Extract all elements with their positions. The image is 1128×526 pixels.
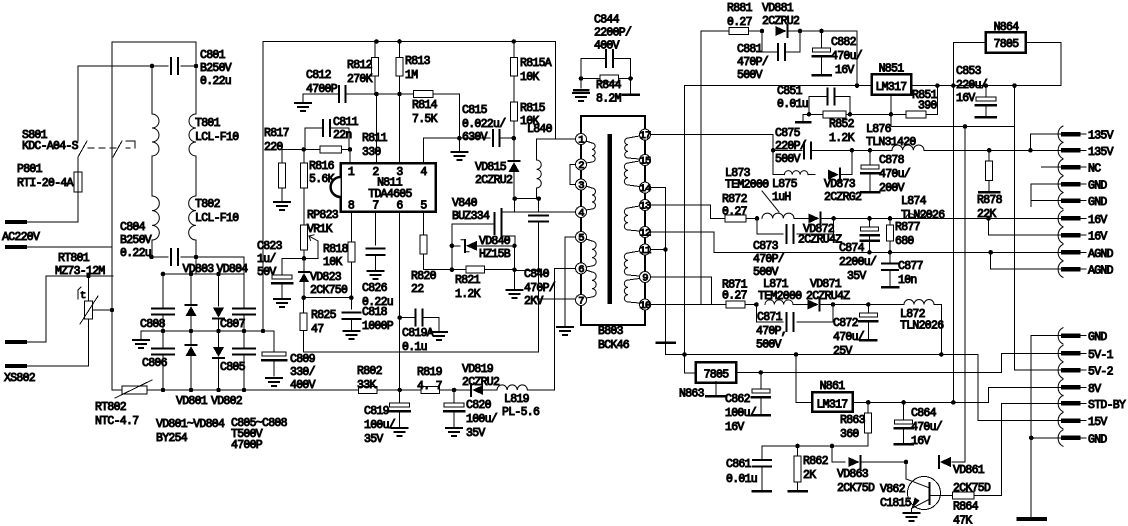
ground (140, 331, 142, 340)
svg-text:0.022u/: 0.022u/ (462, 118, 506, 131)
svg-text:4: 4 (420, 166, 427, 179)
svg-text:V862: V862 (880, 483, 906, 496)
svg-text:10: 10 (639, 300, 651, 312)
capacitor C840 (538, 199, 540, 212)
capacitor C819A (400, 317, 414, 319)
svg-text:6: 6 (396, 200, 403, 213)
svg-text:STD-BY: STD-BY (1088, 399, 1126, 412)
svg-text:R815A: R815A (520, 57, 552, 70)
svg-text:3: 3 (578, 180, 584, 192)
svg-text:C809: C809 (290, 353, 316, 366)
svg-text:10n: 10n (898, 274, 917, 287)
ground (274, 201, 290, 203)
svg-text:22: 22 (411, 283, 424, 296)
svg-text:11: 11 (639, 245, 651, 257)
pin 2 (576, 159, 587, 170)
resistor R881 (729, 28, 748, 35)
svg-text:L876: L876 (866, 123, 892, 136)
svg-text:C808: C808 (140, 318, 166, 331)
svg-text:T801: T801 (195, 117, 221, 130)
svg-text:17: 17 (639, 130, 651, 142)
capacitor C826 (375, 212, 377, 245)
svg-text:VD815: VD815 (475, 161, 507, 174)
wire 15V (978, 355, 1063, 421)
resistor R878 (988, 150, 990, 161)
transistor V862 (908, 477, 941, 510)
svg-text:BY254: BY254 (156, 432, 188, 445)
svg-text:RTI-20-4A: RTI-20-4A (17, 177, 74, 190)
svg-text:4. 7: 4. 7 (417, 380, 442, 393)
svg-text:7805: 7805 (994, 38, 1020, 51)
wire gnd rail (1031, 336, 1063, 519)
pin 7 (576, 295, 587, 306)
svg-text:AGND: AGND (1088, 265, 1114, 278)
svg-text:470P/: 470P/ (753, 253, 785, 266)
svg-text:C881: C881 (737, 43, 763, 56)
svg-text:16V: 16V (835, 64, 854, 77)
switch pole 2 (113, 141, 122, 157)
svg-text:GND: GND (1088, 433, 1107, 446)
wire N861 out (853, 401, 989, 403)
svg-text:1000P: 1000P (362, 320, 394, 333)
svg-text:VD801~VD804: VD801~VD804 (156, 418, 225, 431)
svg-text:5: 5 (420, 200, 427, 213)
capacitor C820 (453, 390, 455, 403)
diode VD801 (190, 331, 192, 345)
resistor R812 (374, 42, 376, 58)
chassis ground (1019, 517, 1045, 521)
svg-text:100u/: 100u/ (466, 413, 498, 426)
resistor R815A (513, 42, 515, 58)
capacitor C808 (162, 274, 164, 308)
pin 9 (640, 272, 651, 283)
svg-text:R814: R814 (412, 99, 438, 112)
diode VD804 (218, 274, 220, 306)
wire to LM317 (856, 31, 858, 86)
svg-text:C875: C875 (775, 127, 801, 140)
svg-text:NC: NC (1088, 163, 1101, 176)
svg-text:R816: R816 (309, 160, 335, 173)
winding 5-6 (586, 239, 592, 241)
svg-text:4700P: 4700P (231, 439, 263, 452)
pin 17 (640, 129, 651, 140)
svg-text:100u/: 100u/ (725, 407, 757, 420)
ground (458, 138, 460, 152)
regulator N863 7805 (685, 372, 696, 374)
capacitor C871 snubber (756, 305, 783, 323)
diode VD815 (509, 160, 520, 162)
pad GND (1058, 328, 1063, 344)
svg-text:N861: N861 (820, 380, 846, 393)
svg-text:R878: R878 (977, 194, 1003, 207)
pad 5V-1 (1058, 345, 1063, 361)
pin 11 (640, 244, 651, 255)
fuse P801 (74, 172, 82, 192)
zener VD840 (452, 245, 460, 247)
wire pin6 (399, 212, 401, 318)
terminal XS802 bar2 (7, 364, 25, 368)
node (302, 256, 307, 261)
wire standby (701, 31, 729, 305)
svg-text:1M: 1M (405, 69, 418, 82)
svg-text:12: 12 (639, 228, 651, 240)
svg-text:R813: R813 (405, 55, 431, 68)
svg-text:470P,: 470P, (756, 325, 787, 338)
pin 15 (640, 155, 651, 166)
wire (25, 319, 89, 366)
svg-text:C871: C871 (757, 311, 783, 324)
wire degauss (46, 275, 113, 277)
svg-text:VD873: VD873 (824, 178, 856, 191)
capacitor C819 (399, 390, 401, 403)
svg-text:270K: 270K (347, 73, 373, 86)
svg-text:1.2K: 1.2K (829, 132, 855, 145)
wire AGND rail (714, 251, 1063, 253)
resistor R811 (320, 146, 342, 153)
svg-text:C840: C840 (524, 268, 550, 281)
svg-text:N863: N863 (679, 388, 705, 401)
svg-text:C872: C872 (833, 317, 859, 330)
svg-text:0.22u: 0.22u (362, 296, 393, 309)
svg-text:BUZ334: BUZ334 (452, 210, 490, 223)
svg-text:C882: C882 (831, 36, 857, 49)
svg-text:2CK75D: 2CK75D (953, 482, 991, 495)
wire 135V (773, 149, 802, 151)
svg-text:470P/: 470P/ (524, 282, 556, 295)
wire (78, 65, 168, 67)
node B+ (261, 329, 266, 334)
svg-text:16V: 16V (956, 92, 975, 105)
svg-text:35V: 35V (847, 270, 866, 283)
svg-text:LM317: LM317 (875, 81, 906, 94)
capacitor C806 (162, 331, 164, 348)
svg-text:220: 220 (264, 141, 283, 154)
terminal AC bar2 (7, 245, 25, 249)
svg-text:KDC-A04-S: KDC-A04-S (22, 140, 79, 153)
wire (304, 297, 352, 299)
svg-text:10K: 10K (323, 256, 342, 269)
wire B+ to pin1 (555, 42, 557, 140)
svg-text:R877: R877 (895, 221, 920, 234)
wire gate net (423, 269, 452, 271)
regulator N861 LM317 (812, 392, 853, 412)
svg-text:47K: 47K (953, 515, 972, 526)
capacitor C804 (151, 256, 168, 258)
inductor L873 (762, 213, 794, 218)
wire GND tie (1031, 184, 1063, 207)
wire vd861 rail dot (963, 124, 968, 129)
inductor L875 (773, 174, 784, 176)
svg-text:2CZRU4Z: 2CZRU4Z (806, 290, 850, 303)
svg-text:C801: C801 (200, 49, 226, 62)
pin 12 (640, 227, 651, 238)
svg-text:R815: R815 (520, 102, 546, 115)
resistor R852 (803, 113, 823, 115)
svg-text:HZ15B: HZ15B (479, 248, 511, 261)
capacitor C861 (753, 459, 771, 461)
capacitor C811 (305, 128, 323, 150)
svg-text:R862: R862 (803, 455, 829, 468)
pad GND (1058, 176, 1063, 192)
wire 8V (989, 387, 1064, 402)
node (150, 64, 155, 69)
wire pin1 (537, 138, 576, 140)
winding 6-7 (586, 270, 592, 272)
svg-text:C1815: C1815 (880, 497, 912, 510)
svg-text:C806: C806 (142, 357, 168, 370)
svg-text:R819: R819 (417, 366, 443, 379)
svg-text:B250V: B250V (120, 234, 152, 247)
svg-text:2KV: 2KV (524, 295, 543, 308)
svg-text:4: 4 (578, 208, 584, 220)
svg-text:GND: GND (1088, 331, 1107, 344)
svg-text:2200u/: 2200u/ (839, 256, 877, 269)
wire 15V (833, 304, 904, 306)
svg-text:390: 390 (918, 100, 937, 113)
resistor R815 (513, 76, 515, 102)
svg-text:7.5K: 7.5K (412, 113, 438, 126)
svg-text:16V: 16V (725, 421, 744, 434)
svg-text:VD881: VD881 (762, 2, 794, 15)
winding 11-9 (628, 251, 640, 253)
svg-text:R872: R872 (722, 193, 748, 206)
svg-text:500V: 500V (775, 153, 801, 166)
wire pin7 feedback (537, 270, 539, 352)
svg-text:10K: 10K (520, 71, 539, 84)
svg-text:GND: GND (1088, 196, 1107, 209)
svg-text:2CK75D: 2CK75D (837, 482, 875, 495)
pad 16V (1058, 227, 1063, 243)
wire pin9 (651, 277, 712, 305)
wire pin17 (651, 134, 774, 136)
wire drain to pin4 (515, 211, 576, 213)
svg-text:1uH: 1uH (772, 191, 791, 204)
wire 16V rail (890, 217, 1063, 219)
svg-text:TLN2026: TLN2026 (900, 320, 944, 333)
wire 5V-1 (1002, 353, 1063, 372)
svg-text:C862: C862 (725, 393, 751, 406)
bar (630, 79, 632, 95)
svg-text:R811: R811 (362, 132, 388, 145)
wire fb row (762, 446, 868, 460)
svg-text:16V: 16V (1088, 214, 1107, 227)
svg-text:RT802: RT802 (95, 401, 127, 414)
pin 10 (640, 299, 651, 310)
wire (800, 30, 857, 32)
svg-text:5V-2: 5V-2 (1088, 366, 1114, 379)
resistor R819 (421, 387, 440, 394)
pad NC (1058, 159, 1063, 175)
wire 135V rail (924, 149, 1063, 151)
svg-text:9: 9 (642, 273, 648, 285)
svg-text:33K: 33K (357, 379, 376, 392)
wire AGND b (988, 250, 993, 255)
wire (852, 149, 892, 151)
svg-text:15: 15 (639, 156, 651, 168)
svg-text:NTC-4.7: NTC-4.7 (95, 415, 138, 428)
wire n864 rail (952, 86, 954, 403)
svg-text:VD802: VD802 (211, 395, 243, 408)
switch S801 (78, 141, 87, 157)
svg-text:R864: R864 (953, 501, 979, 514)
pad AGND (1058, 244, 1063, 260)
choke T801 (151, 66, 153, 114)
inductor L872 (904, 300, 934, 305)
resistor R821 (452, 269, 466, 271)
svg-text:TDA4605: TDA4605 (368, 188, 412, 201)
pin 5 (576, 232, 587, 243)
capacitor C864 (903, 402, 905, 420)
svg-text:AC220V: AC220V (2, 231, 40, 244)
svg-text:VD840: VD840 (479, 235, 511, 248)
svg-text:R881: R881 (727, 2, 753, 15)
svg-text:LM317: LM317 (816, 399, 847, 412)
wire STD-BY (1002, 402, 1063, 404)
svg-text:N864: N864 (994, 21, 1020, 34)
pad 135V (1058, 142, 1063, 158)
resistor R820 (422, 212, 424, 235)
wire N861 in (796, 355, 812, 403)
svg-text:C820: C820 (466, 399, 492, 412)
capacitor C809 (273, 331, 275, 352)
wire gate (452, 223, 495, 225)
diode VD872 (819, 212, 821, 224)
wire 7805 in (953, 43, 986, 86)
svg-text:6: 6 (578, 264, 584, 276)
wire bridge bottom (112, 389, 122, 391)
wire adj pin (890, 95, 892, 114)
svg-text:R863: R863 (840, 414, 866, 427)
svg-text:C819: C819 (364, 405, 390, 418)
svg-text:L874: L874 (901, 195, 927, 208)
svg-text:2: 2 (578, 160, 584, 172)
winding 15-14 (628, 161, 640, 163)
pad GND (1058, 430, 1063, 446)
svg-text:680: 680 (895, 235, 914, 248)
diode VD871 (819, 299, 821, 311)
wire (514, 246, 516, 270)
node (374, 39, 379, 44)
resistor R863 (867, 402, 869, 413)
svg-text:470u/: 470u/ (833, 331, 865, 344)
pin 13 (640, 200, 651, 211)
svg-text:2K: 2K (803, 469, 816, 482)
svg-text:0.22u: 0.22u (200, 75, 231, 88)
svg-text:L840: L840 (527, 123, 553, 136)
svg-text:135V: 135V (1088, 130, 1114, 143)
svg-text:LCL-F10: LCL-F10 (195, 212, 239, 225)
wire 16V b (986, 216, 991, 221)
wire pin17 rail (684, 86, 686, 373)
svg-text:135V: 135V (1088, 146, 1114, 159)
svg-text:VD801: VD801 (176, 395, 208, 408)
wire pin12 (651, 232, 715, 252)
svg-text:0.01u: 0.01u (777, 98, 808, 111)
svg-text:VD863: VD863 (837, 468, 869, 481)
pad 15V (1058, 413, 1063, 429)
svg-text:BCK46: BCK46 (598, 339, 630, 352)
svg-text:16V: 16V (1088, 231, 1107, 244)
svg-text:XS802: XS802 (4, 372, 36, 385)
wire adj (1014, 86, 1016, 127)
svg-text:2CZRU2: 2CZRU2 (475, 174, 513, 187)
svg-text:25V: 25V (833, 345, 852, 358)
svg-text:N851: N851 (879, 63, 905, 76)
svg-text:15V: 15V (1088, 416, 1107, 429)
wire pin5 to ground (565, 237, 575, 327)
svg-text:GND: GND (1088, 180, 1107, 193)
regulator N864 7805 (986, 32, 1026, 52)
inductor L819 (497, 385, 527, 390)
wire (451, 246, 453, 270)
wire 7805 out (736, 372, 1001, 374)
winding 17-15 (628, 136, 640, 138)
svg-text:C815: C815 (462, 104, 488, 117)
svg-text:220u/: 220u/ (956, 79, 988, 92)
terminal AC bar1 (7, 220, 25, 224)
capacitor C875 (803, 142, 805, 158)
svg-text:C804: C804 (120, 221, 146, 234)
node pin2 (374, 92, 379, 97)
node drain (514, 199, 516, 212)
wire pin14/11 (651, 188, 666, 355)
pin 1 (576, 134, 587, 145)
choke T802 (151, 156, 153, 196)
svg-text:360: 360 (840, 428, 859, 441)
capacitor C872 (867, 305, 869, 314)
wire NC stub (1041, 166, 1063, 168)
node (348, 147, 353, 152)
svg-text:8.2M: 8.2M (596, 93, 622, 106)
svg-text:22n: 22n (333, 129, 352, 142)
wire (934, 217, 989, 219)
resistor R818 (351, 212, 353, 242)
svg-text:C826: C826 (362, 282, 388, 295)
diode VD802 (218, 331, 220, 347)
svg-text:470u/: 470u/ (831, 50, 863, 63)
wire bridge top (163, 273, 244, 275)
svg-text:13: 13 (639, 201, 651, 213)
svg-text:VD819: VD819 (462, 363, 494, 376)
wire B+ riser (263, 42, 556, 332)
svg-text:C877: C877 (898, 260, 923, 273)
winding 13-12 (628, 206, 640, 208)
ground (295, 102, 311, 104)
wire (934, 305, 941, 355)
capacitor C882 (821, 31, 823, 48)
svg-text:C812: C812 (306, 69, 332, 82)
svg-text:C851: C851 (777, 85, 803, 98)
svg-text:AGND: AGND (1088, 248, 1114, 261)
transformer B803 frame (581, 116, 645, 325)
inductor L876 coil (892, 145, 924, 150)
svg-text:t: t (80, 290, 86, 302)
wire (25, 246, 112, 248)
svg-text:100u/: 100u/ (364, 419, 396, 432)
diode VD881 (762, 30, 763, 32)
diode VD861 (938, 456, 940, 468)
svg-text:C819A: C819A (402, 327, 434, 340)
pad AGND (1058, 261, 1063, 277)
svg-text:2CZRU2: 2CZRU2 (762, 15, 800, 28)
leader (762, 191, 779, 212)
svg-text:VD823: VD823 (310, 271, 342, 284)
svg-text:TLN31420: TLN31420 (866, 136, 916, 149)
svg-text:2CZRU2: 2CZRU2 (462, 376, 500, 389)
svg-text:C853: C853 (956, 65, 982, 78)
wire (151, 240, 153, 257)
pin 6 (576, 263, 587, 274)
